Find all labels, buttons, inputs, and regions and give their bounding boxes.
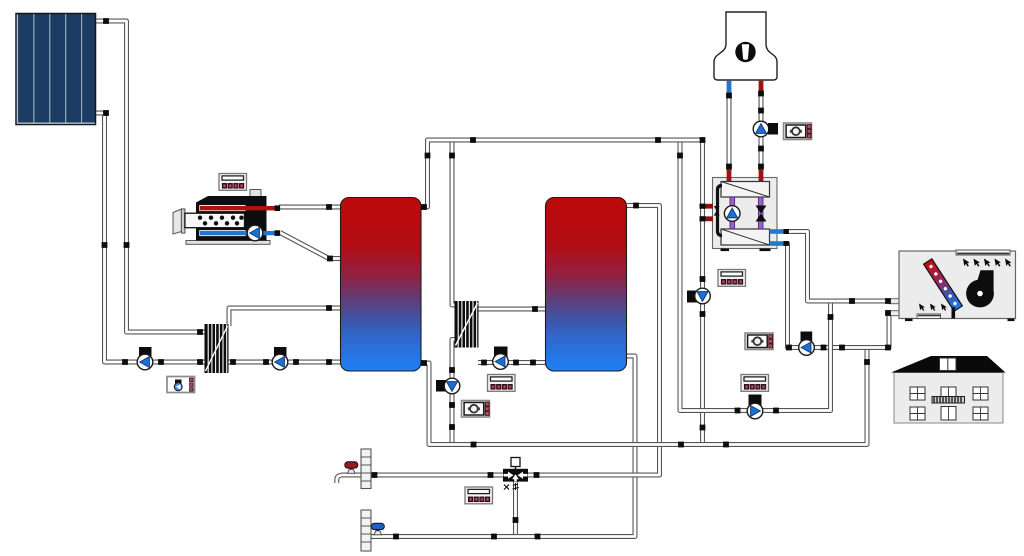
junction (452,370)	[449, 367, 455, 373]
wire HX2 primary return down through pump P5	[452, 340, 456, 445]
junction (233,362)	[230, 359, 236, 365]
wire boiler B2 supply (right leg with pump P9)	[759, 93, 764, 168]
junction (537.5,536.5)	[535, 534, 541, 540]
junction (842,347.5)	[839, 345, 845, 351]
wire branch from top manifold down to HX2 primary inlet	[452, 141, 456, 305]
wire HX1 secondary return through pump P2 to tank T1 bottom-left port	[227, 360, 341, 365]
junction (761,110.5)	[758, 108, 764, 114]
junction (161,362)	[158, 359, 164, 365]
junction (126.5,245)	[124, 242, 130, 248]
pump P1 solar loop	[139, 347, 152, 357]
boiler B2 (gas boiler top)	[714, 12, 777, 80]
junction (888,313)	[885, 310, 891, 316]
wire space-heating supply: FWS upper port to fan-coil top port	[786, 232, 899, 302]
mixing valve V1	[503, 458, 528, 491]
junction (104.5,245)	[102, 242, 108, 248]
heat exchanger HX2 (boiler charging)	[455, 301, 479, 348]
wire space-heating return: FWS lower port through pump P8 to fan-coil bottom port	[786, 244, 899, 348]
junction (516,362.5)	[513, 360, 519, 366]
controller C6	[784, 123, 812, 140]
controller C1 above boiler B1	[219, 174, 247, 191]
cold water tap valve	[371, 523, 384, 535]
junction (823.5,347.5)	[821, 345, 827, 351]
controller C5 mixing valve	[465, 487, 493, 504]
junction (830.5,317)	[828, 314, 834, 320]
wire top manifold: tank T1 top-right port across to FWS drop	[421, 140, 703, 207]
junction (737.5,410.5)	[735, 408, 741, 414]
junction (452,405)	[449, 402, 455, 408]
wire bypass: top manifold drop x680 through pump P7 to riser x830	[680, 142, 831, 411]
junction (867,362)	[864, 359, 870, 365]
boiler B2 blue stub	[727, 81, 732, 94]
junction (729,166.5)	[726, 164, 732, 170]
junction (702.5,140)	[700, 137, 706, 143]
valve V2 inside FWS (bowtie)	[756, 206, 767, 222]
wire fresh-water-station primary drop with pump P4	[700, 142, 705, 445]
hot water tap wall anchor	[361, 449, 371, 489]
boiler B2 red stub	[759, 81, 764, 92]
junction (374.5,475)	[372, 472, 378, 478]
FWS left red stubs from primary drop	[700, 204, 714, 222]
wire cold water line: cold tap to tank T2 bottom-right port	[363, 356, 635, 537]
fresh water station FWS	[713, 167, 778, 251]
junction (330,258.5)	[327, 256, 333, 262]
junction (789,347.5)	[786, 345, 792, 351]
wire boiler B2 return (left leg)	[727, 95, 732, 168]
storage tank T1	[341, 198, 422, 372]
pump P7 on bypass (points right)	[749, 395, 762, 407]
valve V3 on FWS left wall	[714, 206, 720, 216]
black sensor box right of pump P9	[768, 123, 778, 135]
junction (266,362)	[263, 359, 269, 365]
heat exchanger HX1 (solar loop)	[205, 324, 229, 373]
junction (658,140)	[655, 137, 661, 143]
junction (106,113)	[103, 110, 109, 116]
junction (125,362)	[122, 359, 128, 365]
junction (200,362)	[197, 359, 203, 365]
pump P3 on boiler B1 blue return	[247, 225, 263, 241]
junction (296,362)	[293, 359, 299, 365]
pump P2 solar secondary	[274, 347, 287, 357]
solar collector	[16, 14, 96, 125]
pump P9 on boiler B2 supply (points up)	[753, 121, 769, 137]
junction (200,332)	[197, 329, 203, 335]
junction (636,205.5)	[633, 203, 639, 209]
junction (473,140)	[470, 137, 476, 143]
junction (761,93.5)	[758, 91, 764, 97]
wire mixing valve V1 cold feed drop	[513, 480, 518, 537]
wire boiler B1 return from tank T1 second left port	[280, 233, 341, 259]
controller C7	[745, 333, 773, 350]
junction (888,347.5)	[885, 345, 891, 351]
wire HX1 secondary hot to tank T1 upper-middle port	[229, 308, 341, 326]
fan-coil unit (air heater)	[890, 250, 1016, 321]
controller C3	[488, 375, 516, 392]
junction (329,362)	[326, 359, 332, 365]
junction (515.5,520)	[513, 517, 519, 523]
junction (726,444.5)	[723, 442, 729, 448]
junction (424,363)	[421, 360, 427, 366]
wire solar return: HX1 outlet through pump P1 to collector bottom port	[96, 113, 207, 362]
junction (776,410.5)	[773, 408, 779, 414]
junction (424,207)	[421, 204, 427, 210]
junction (396,536.5)	[393, 534, 399, 540]
junction (729,95.5)	[726, 93, 732, 99]
junction (329,308)	[326, 305, 332, 311]
wire boiler B1 hot supply to tank T1 top-left port	[279, 205, 341, 210]
wire HX2 secondary hot to tank T2 upper-left port	[478, 307, 546, 312]
storage tank T2	[546, 198, 627, 372]
controller C4	[462, 401, 490, 418]
junction (761,166.5)	[758, 164, 764, 170]
junction (494,536.5)	[491, 534, 497, 540]
boiler B1 (oil boiler bottom-left)	[173, 190, 280, 245]
junction (452,427)	[449, 424, 455, 430]
junction (761,148.5)	[758, 146, 764, 152]
wire HX2 secondary return through pump P6 to tank T2 lower-left port	[478, 360, 546, 365]
junction (535,309)	[532, 306, 538, 312]
controller C2 solar pump controller	[167, 377, 195, 393]
pump P10 inside FWS (points up)	[724, 206, 740, 222]
FWS right blue stubs	[770, 229, 789, 246]
junction (484,362.5)	[481, 360, 487, 366]
junction (888,301)	[885, 298, 891, 304]
pump P6 on HX2 secondary	[494, 347, 508, 359]
hot water tap	[337, 462, 358, 483]
junction (702.5,279)	[700, 276, 706, 282]
junction (702.5,427.5)	[700, 425, 706, 431]
controller C8	[741, 375, 769, 392]
junction (852,301)	[849, 298, 855, 304]
house (heat demand)	[891, 356, 1006, 423]
junction (533,362.5)	[530, 360, 536, 366]
junction (329,207)	[326, 204, 332, 210]
junction (490.5,475)	[488, 472, 494, 478]
controller C9 below FWS	[718, 270, 746, 287]
junction (681,444.5)	[678, 442, 684, 448]
wire hot water line: tank T2 top-right port down to mixing valve and hot tap	[341, 206, 660, 476]
pump P8 space heating (points left)	[801, 332, 813, 342]
junction (427.5,155.5)	[425, 153, 431, 159]
wire lower return manifold: tank T1 bottom-right port to riser x867	[421, 348, 867, 445]
junction (452,155.5)	[449, 153, 455, 159]
junction (702.5,314)	[700, 311, 706, 317]
junction (106,21)	[103, 18, 109, 24]
cold water tap wall anchor	[361, 510, 371, 551]
wire solar flow: collector top port to HX1 hot inlet	[96, 21, 207, 332]
junction (536.5,475)	[534, 472, 540, 478]
pump P5 on HX2 primary return (points down)	[436, 380, 448, 392]
junction (680,155.5)	[677, 153, 683, 159]
junction (473.5,444.5)	[471, 442, 477, 448]
pump P4 on FWS primary drop (points down)	[687, 291, 699, 303]
